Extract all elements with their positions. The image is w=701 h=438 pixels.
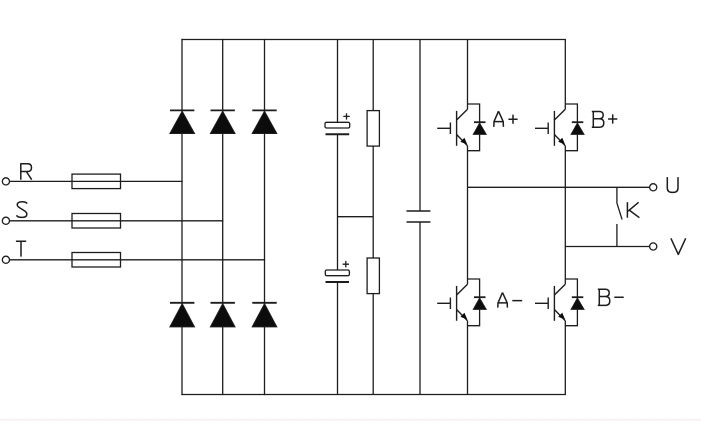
wire T input line xyxy=(10,259,265,261)
label K xyxy=(627,202,639,218)
label T xyxy=(16,241,26,256)
wire R input line xyxy=(10,180,182,182)
diode D2 xyxy=(210,110,235,133)
wire collector from V node xyxy=(564,247,566,285)
freewheel diode xyxy=(572,296,584,298)
label B- xyxy=(598,289,624,305)
label V xyxy=(671,238,686,254)
wire collector from top bus xyxy=(564,40,566,110)
label B+ xyxy=(592,112,618,128)
label R xyxy=(21,164,32,180)
wire balancing resistor column xyxy=(372,40,374,395)
wire rectifier leg 3 vertical xyxy=(264,40,266,395)
freewheel diode xyxy=(474,121,486,123)
emitter arrow xyxy=(559,313,565,319)
terminal V xyxy=(650,243,657,250)
wire collector from U node xyxy=(467,187,469,284)
fuse F3 (T phase) xyxy=(72,253,121,268)
wire S input line xyxy=(10,220,223,222)
diode D5 xyxy=(210,303,235,327)
wire emitter down to bottom bus xyxy=(564,321,566,395)
terminal U xyxy=(650,184,657,191)
diode D6 xyxy=(252,303,277,327)
diode D3 xyxy=(252,110,277,133)
transistor body xyxy=(535,109,565,146)
wire rectifier leg 2 vertical xyxy=(222,40,224,395)
wire U output line xyxy=(468,186,650,188)
label S xyxy=(16,202,27,218)
label U xyxy=(667,177,678,192)
freewheel diode xyxy=(572,121,584,123)
wire V output line xyxy=(565,246,649,248)
freewheel diode branch xyxy=(468,104,480,151)
wire emitter down to V node xyxy=(564,146,566,247)
transistor body xyxy=(437,284,467,321)
label A+ xyxy=(494,111,518,127)
transistor body xyxy=(535,284,565,321)
emitter arrow xyxy=(461,313,467,319)
transistor body xyxy=(437,109,467,146)
emitter arrow xyxy=(559,138,565,144)
wire snubber capacitor column xyxy=(419,40,421,395)
wire rectifier leg 1 vertical xyxy=(181,40,183,395)
IGBT B+ (with freewheel diode) xyxy=(535,40,584,247)
fuse F1 (R phase) xyxy=(72,174,121,189)
faint separator line bottom xyxy=(0,419,701,421)
capacitor C1 (electrolytic +) xyxy=(325,113,350,134)
capacitor C3 xyxy=(407,211,431,222)
fuse F2 (S phase) xyxy=(72,214,121,229)
wire top DC bus xyxy=(182,39,565,41)
wire collector from top bus xyxy=(467,40,469,110)
freewheel diode branch xyxy=(468,279,480,326)
wire emitter down to U node xyxy=(467,146,469,188)
terminal S xyxy=(2,217,9,224)
diode D1 xyxy=(170,110,195,133)
IGBT A+ (with freewheel diode) xyxy=(437,40,486,188)
wire bottom DC bus xyxy=(182,394,565,396)
wire midpoint connector xyxy=(338,216,374,218)
freewheel diode xyxy=(474,296,486,298)
wire DC link capacitor column xyxy=(337,40,339,395)
terminal T xyxy=(2,256,9,263)
freewheel diode branch xyxy=(565,104,577,151)
switch K (contactor) xyxy=(617,187,622,246)
terminal R xyxy=(2,178,9,185)
label A- xyxy=(498,293,522,308)
IGBT B- (with freewheel diode) xyxy=(535,247,584,395)
capacitor C2 (electrolytic +) xyxy=(325,261,349,282)
diode D4 xyxy=(170,303,195,327)
resistor R1 xyxy=(367,111,379,147)
emitter arrow xyxy=(461,138,467,144)
IGBT A- (with freewheel diode) xyxy=(437,187,486,394)
wire emitter down to bottom bus xyxy=(467,321,469,395)
freewheel diode branch xyxy=(565,279,577,326)
resistor R2 xyxy=(367,258,379,294)
